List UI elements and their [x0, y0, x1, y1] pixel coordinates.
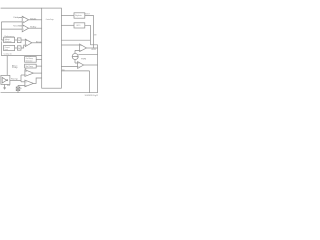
- svg-text:BOOT: BOOT: [85, 14, 90, 16]
- node plus minus marks A2: [22, 25, 25, 29]
- svg-text:Reference: Reference: [5, 36, 15, 38]
- node plus minus marks T5: [25, 81, 28, 85]
- svg-text:Error: Error: [36, 41, 42, 43]
- wire oscillator output: [10, 79, 21, 81]
- svg-text:Gnd: Gnd: [7, 85, 10, 87]
- wire SB1 to error amp: [21, 39, 25, 41]
- svg-text:SW: SW: [94, 34, 97, 36]
- svg-text:Ramp: Ramp: [11, 79, 18, 81]
- wire B1 output: [36, 58, 42, 60]
- sense resistor box: [16, 87, 20, 91]
- wire A3 output: [32, 42, 42, 44]
- wire A2 output: [29, 27, 42, 29]
- op-amp A2: [22, 25, 28, 32]
- node plus minus marks V2: [78, 63, 79, 67]
- gain block SB1: [17, 38, 21, 43]
- oscillator buffer triangle: [2, 77, 6, 83]
- wire V2 upper input: [75, 59, 78, 63]
- svg-text:Vref: Vref: [13, 25, 20, 28]
- svg-text:HDRV: HDRV: [91, 49, 96, 51]
- ramp box B1: [25, 57, 37, 63]
- wire T5 output: [33, 78, 41, 83]
- wire V2 lower input: [61, 65, 77, 67]
- wire regulator output: [85, 15, 94, 48]
- wire COMP drop to oscillator: [6, 56, 8, 76]
- wire comparator A upper input stub: [19, 17, 22, 19]
- wire COMP rail: [1, 55, 41, 57]
- wire mid rail: [61, 39, 90, 41]
- node bus to COMP rail: [0, 41, 2, 55]
- wire box2 output: [85, 25, 98, 45]
- comparator T5: [25, 80, 34, 87]
- wire VIN top rail: [1, 7, 42, 9]
- wire SB2 to error amp: [21, 45, 25, 48]
- wire B1 to COMP rail: [29, 55, 31, 58]
- right border: [97, 45, 99, 93]
- svg-text:Min Clamp: Min Clamp: [26, 66, 33, 68]
- wire comparator B lower input: [1, 28, 22, 30]
- wire ref to SB1: [15, 39, 18, 41]
- wire T4 output: [33, 72, 41, 74]
- wire T5 lower input: [18, 85, 25, 87]
- svg-text:Shdn: Shdn: [30, 18, 36, 20]
- error amp A3: [25, 39, 32, 46]
- wire T5 upper input: [21, 81, 25, 83]
- wire comparator B upper input stub: [19, 25, 22, 27]
- svg-text:Stdby: Stdby: [30, 26, 37, 29]
- op-amp A1: [22, 16, 28, 23]
- wire A1 output: [29, 19, 42, 21]
- wire ref2 to SB2: [15, 47, 18, 49]
- wire resistor to gnd: [17, 91, 19, 93]
- comparator V2: [78, 62, 84, 69]
- inverter bubble: [7, 80, 8, 81]
- gain block SB2: [17, 46, 21, 50]
- ground: [3, 85, 6, 90]
- svg-text:Max: Max: [12, 65, 18, 67]
- node left bus: [1, 22, 3, 40]
- bottom border: [1, 92, 98, 94]
- wire V1 lower input: [75, 50, 80, 53]
- oscillator box: [1, 75, 10, 84]
- slope comp box B2: [25, 64, 37, 68]
- wire T4 lower input: [21, 74, 25, 76]
- svg-text:Comp in: Comp in: [4, 53, 12, 55]
- wire V2 output: [84, 64, 98, 66]
- svg-text:SLVS839 Fig12: SLVS839 Fig12: [85, 95, 99, 97]
- control logic block U1: [42, 8, 62, 88]
- wire to regulator: [61, 14, 74, 16]
- svg-text:Vddq: Vddq: [13, 17, 19, 19]
- node plus minus marks T3: [25, 40, 28, 45]
- wire V1 output: [86, 47, 97, 49]
- regulator box: [74, 13, 85, 18]
- wire B2 to T4: [25, 68, 27, 71]
- wire B2 output: [36, 65, 42, 67]
- wire lower right rail: [61, 71, 89, 93]
- wire V1 upper input: [61, 44, 79, 46]
- svg-text:PWM: PWM: [81, 58, 87, 60]
- wire current source output: [78, 54, 97, 56]
- node plus minus marks T4: [25, 71, 28, 75]
- uvlo box: [74, 23, 85, 28]
- svg-text:Control logic: Control logic: [46, 18, 54, 21]
- comparator V1: [80, 44, 87, 52]
- wire comparator A lower input: [1, 21, 22, 23]
- svg-text:Rt: Rt: [20, 87, 22, 90]
- wire to box2: [61, 24, 74, 26]
- svg-text:Osc Ramp: Osc Ramp: [26, 58, 33, 60]
- voltage reference box: [4, 37, 15, 42]
- wire ramp vertical: [20, 75, 22, 82]
- comparator T4: [25, 70, 34, 77]
- node plus minus marks V1: [80, 45, 81, 50]
- current source I1: [72, 53, 78, 59]
- node plus minus marks A1: [22, 17, 25, 22]
- reference trim box: [4, 45, 15, 50]
